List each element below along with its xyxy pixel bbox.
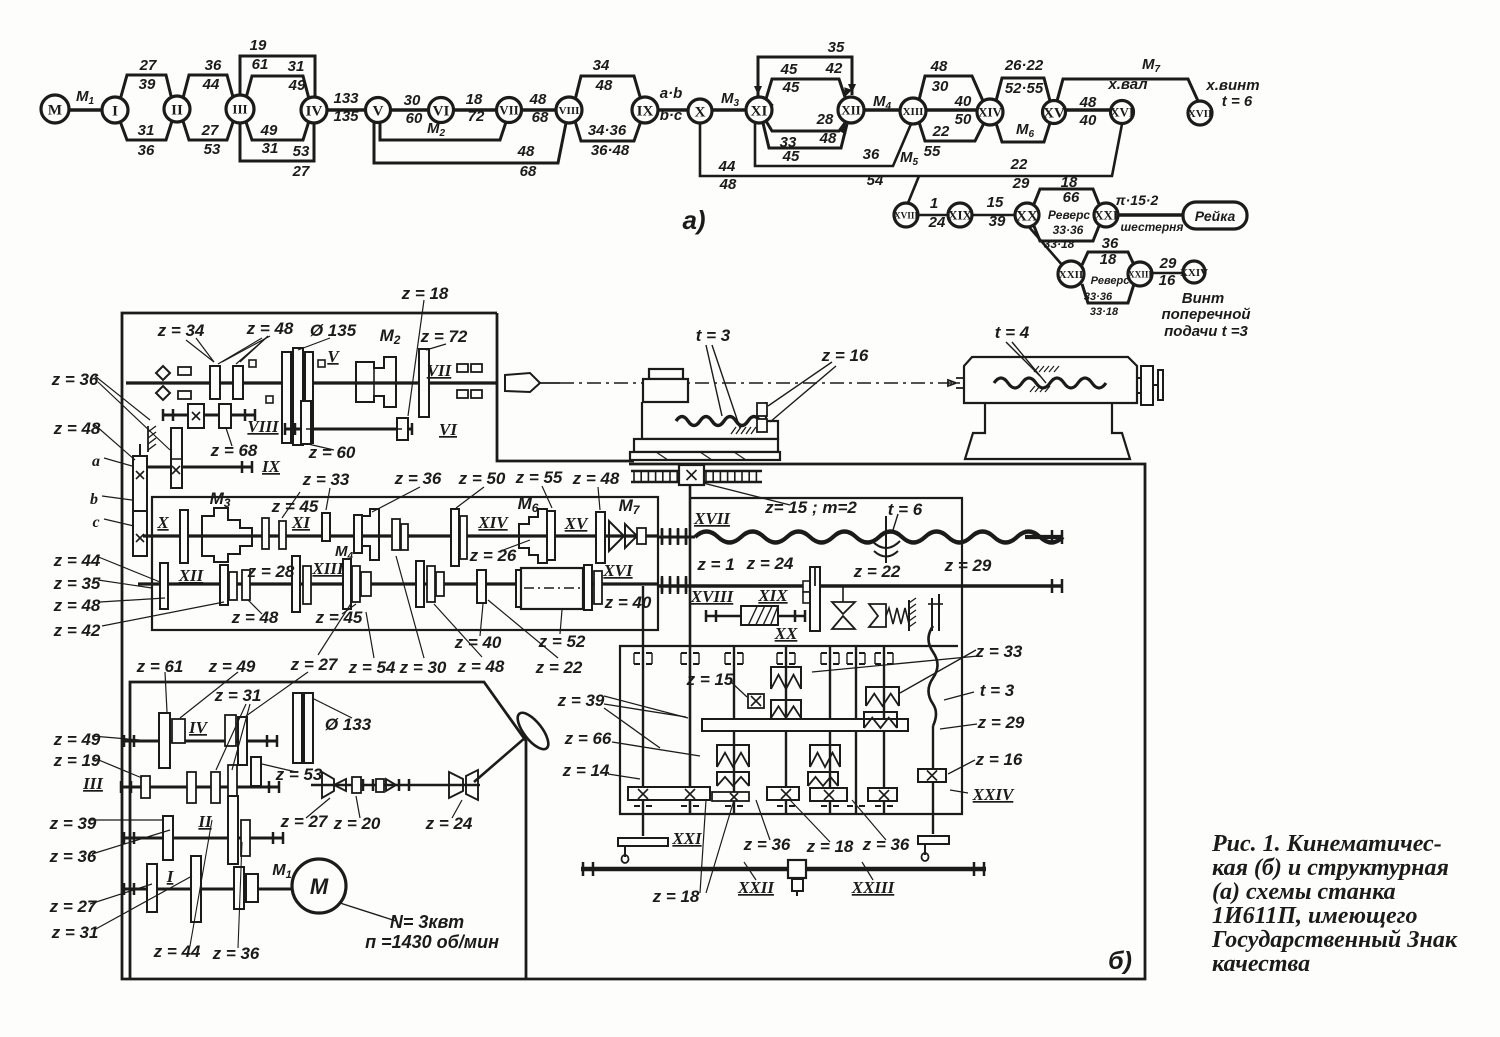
node M xyxy=(41,95,69,123)
gear z=60 xyxy=(301,401,311,444)
svg-text:VII: VII xyxy=(499,103,519,118)
spring wall hatched xyxy=(908,600,910,631)
wall hatching xyxy=(148,426,156,432)
ratchet clutch xyxy=(869,604,886,627)
node XXIII xyxy=(1128,262,1152,286)
svg-text:XVIII: XVIII xyxy=(690,587,735,606)
svg-text:z = 50: z = 50 xyxy=(458,469,506,488)
gear z=44/35 block xyxy=(160,563,168,609)
cross-feed screw wave xyxy=(676,417,760,426)
svg-text:28: 28 xyxy=(816,111,834,128)
svg-text:М1: М1 xyxy=(272,862,291,881)
svg-text:XIV: XIV xyxy=(978,105,1002,120)
motor M xyxy=(292,859,346,913)
svg-text:z = 36: z = 36 xyxy=(394,469,442,488)
svg-text:М: М xyxy=(48,102,62,118)
handwheel xyxy=(512,708,553,754)
svg-text:36: 36 xyxy=(138,142,155,159)
svg-text:z = 68: z = 68 xyxy=(210,441,258,460)
svg-text:66: 66 xyxy=(1063,189,1080,206)
svg-text:z = 22: z = 22 xyxy=(853,562,901,581)
ratio loop III-IV inner bottom 49/31 xyxy=(246,121,309,140)
svg-text:t = 6: t = 6 xyxy=(888,500,923,519)
wire XIII-XIV xyxy=(926,108,977,112)
leader D133 xyxy=(312,698,352,718)
node XIV xyxy=(977,99,1003,125)
svg-text:XVII: XVII xyxy=(693,509,731,528)
svg-text:XII: XII xyxy=(841,103,861,118)
svg-text:XXIV: XXIV xyxy=(1180,267,1208,279)
svg-text:z = 60: z = 60 xyxy=(308,443,356,462)
svg-text:52·55: 52·55 xyxy=(1005,80,1044,97)
sliding key bar xyxy=(702,719,908,731)
node I xyxy=(102,97,128,123)
svg-text:z = 18: z = 18 xyxy=(652,887,700,906)
svg-text:VIII: VIII xyxy=(559,105,580,117)
wire XI to XIII (M5 line) xyxy=(755,122,911,166)
svg-text:53: 53 xyxy=(204,141,221,158)
node VIII xyxy=(556,97,582,123)
bevel pair z=22 xyxy=(832,602,855,614)
node XV xyxy=(1043,101,1066,124)
lower rack shaft xyxy=(581,867,986,872)
svg-text:XXII: XXII xyxy=(737,878,775,897)
node V xyxy=(366,98,391,123)
svg-text:z = 18: z = 18 xyxy=(401,284,449,303)
svg-text:кая (б) и структурная: кая (б) и структурная xyxy=(1212,855,1449,881)
leaders headstock labels xyxy=(186,340,214,362)
gear z=36/z=48 on shaft IX xyxy=(171,428,182,488)
svg-text:X: X xyxy=(156,513,169,532)
svg-text:45: 45 xyxy=(782,79,800,96)
svg-text:XII: XII xyxy=(178,566,205,585)
svg-text:b·c: b·c xyxy=(660,107,683,124)
ratio loop II-III top 36/44 xyxy=(183,75,233,98)
gear z=52 xyxy=(584,565,592,610)
svg-text:33·36: 33·36 xyxy=(1053,223,1084,237)
drive vertical from pinion xyxy=(689,485,692,814)
speed gearbox outline xyxy=(130,682,526,979)
wire XIX-XX xyxy=(972,214,1015,217)
svg-text:16: 16 xyxy=(1159,272,1176,289)
svg-text:IX: IX xyxy=(637,103,654,119)
lathe centre at tailstock xyxy=(956,378,964,388)
gear z=48 (to rack pinion) xyxy=(596,512,605,563)
svg-text:60: 60 xyxy=(406,110,423,127)
svg-text:XIX: XIX xyxy=(757,586,788,605)
vertical shaft top bearing marks xyxy=(634,652,640,654)
svg-text:1: 1 xyxy=(930,195,938,212)
svg-text:XX: XX xyxy=(774,624,798,643)
svg-text:М5: М5 xyxy=(900,149,919,168)
svg-text:М6: М6 xyxy=(1016,121,1035,140)
svg-text:33·18: 33·18 xyxy=(1044,237,1075,251)
svg-text:VII: VII xyxy=(427,361,453,380)
svg-text:Рис. 1. Кинематичес-: Рис. 1. Кинематичес- xyxy=(1211,831,1442,857)
svg-text:III: III xyxy=(82,774,104,793)
svg-text:шестерня: шестерня xyxy=(1121,220,1184,234)
svg-text:Ø 133: Ø 133 xyxy=(325,715,372,734)
apron verticals xyxy=(642,586,644,836)
wire IV-V xyxy=(327,108,366,112)
svg-text:30: 30 xyxy=(404,92,421,109)
svg-text:М7: М7 xyxy=(1142,56,1161,75)
svg-text:z = 19: z = 19 xyxy=(53,751,101,770)
overload clutch M7 xyxy=(609,521,624,551)
couplings XVII from M7 xyxy=(658,536,695,539)
ratio loop III-IV outer top 19/61 xyxy=(240,56,315,97)
long cluster gear xyxy=(228,796,238,864)
svg-text:z = 48: z = 48 xyxy=(53,596,101,615)
leader t=4 tailstock xyxy=(1006,342,1040,376)
shaft X (upper cluster shaft) xyxy=(143,534,658,537)
svg-text:z = 31: z = 31 xyxy=(214,686,262,705)
ratio loop III-IV inner top 31/49 xyxy=(246,76,309,99)
ratio loop XIV-XV bottom M6 xyxy=(996,123,1050,142)
saddle base xyxy=(634,439,778,452)
svg-text:z = 36: z = 36 xyxy=(743,835,791,854)
ratio loop XIII-XIV bottom 22/55 xyxy=(919,122,984,141)
wire VI-VII xyxy=(454,108,497,112)
svg-text:z = 49: z = 49 xyxy=(208,657,256,676)
wire VII-VIII xyxy=(522,108,556,112)
svg-text:40: 40 xyxy=(954,93,972,110)
shaft XII (lower cluster shaft) xyxy=(138,582,658,585)
svg-text:XXIII: XXIII xyxy=(851,878,896,897)
node XI xyxy=(746,97,772,123)
ratio loop VIII-IX bottom xyxy=(575,121,641,141)
svg-text:z = 27: z = 27 xyxy=(290,655,339,674)
main gear cluster box xyxy=(152,497,658,630)
gear z=45b xyxy=(279,521,286,549)
node XIII xyxy=(900,98,926,124)
svg-text:п =1430 об/мин: п =1430 об/мин xyxy=(365,932,499,952)
tailstock body xyxy=(964,357,1137,403)
svg-text:z = 44: z = 44 xyxy=(153,942,201,961)
svg-text:z = 48: z = 48 xyxy=(231,608,279,627)
cluster on XIII xyxy=(343,559,351,609)
node XVI xyxy=(1110,101,1134,124)
node IV xyxy=(301,97,327,123)
shaft I xyxy=(124,888,284,891)
svg-text:45: 45 xyxy=(780,61,798,78)
svg-text:I: I xyxy=(166,867,175,886)
gear z=16 cross feed xyxy=(918,769,946,782)
svg-text:XVI: XVI xyxy=(602,561,634,580)
svg-text:z = 27: z = 27 xyxy=(49,897,98,916)
svg-text:48: 48 xyxy=(930,58,948,75)
svg-text:XVIII: XVIII xyxy=(894,210,918,220)
shaft VIII xyxy=(163,414,255,417)
ratio loop XX-XXI top (Revers) xyxy=(1034,189,1099,204)
svg-text:V: V xyxy=(327,347,340,366)
cross slide body xyxy=(642,402,778,439)
svg-text:68: 68 xyxy=(520,163,537,180)
spindle axis dash-dot xyxy=(560,382,963,384)
svg-text:а): а) xyxy=(682,205,705,235)
shaft IV xyxy=(124,740,278,743)
svg-text:М2: М2 xyxy=(380,326,401,347)
node II xyxy=(164,96,190,122)
svg-text:z = 36: z = 36 xyxy=(51,370,99,389)
svg-text:II: II xyxy=(171,102,183,118)
gear z=54 xyxy=(416,561,424,607)
tailstock handwheel xyxy=(1141,366,1153,405)
svg-text:40: 40 xyxy=(1079,112,1097,129)
svg-text:48: 48 xyxy=(595,77,613,94)
casing outline xyxy=(122,313,1145,979)
svg-text:z = 44: z = 44 xyxy=(53,551,101,570)
pick-off change gears a,b,c xyxy=(133,456,147,511)
svg-text:36: 36 xyxy=(863,146,880,163)
svg-text:М1: М1 xyxy=(76,88,95,107)
svg-text:VIII: VIII xyxy=(247,417,280,436)
wire XII-XIII xyxy=(864,108,900,112)
svg-text:49: 49 xyxy=(288,77,306,94)
svg-text:качества: качества xyxy=(1212,951,1310,977)
svg-text:t = 3: t = 3 xyxy=(696,326,731,345)
svg-text:36: 36 xyxy=(1102,235,1119,252)
rack z=48 / pinion z=15 m=2 xyxy=(631,470,762,472)
carriage toolpost xyxy=(649,369,683,379)
svg-text:54: 54 xyxy=(867,172,884,189)
svg-text:48: 48 xyxy=(529,91,547,108)
node X xyxy=(688,99,712,123)
svg-text:z = 48: z = 48 xyxy=(53,419,101,438)
svg-text:72: 72 xyxy=(468,108,485,125)
feed shaft (XVI extension) xyxy=(658,584,1062,587)
svg-text:z = 61: z = 61 xyxy=(136,657,184,676)
svg-text:(а) схемы станка: (а) схемы станка xyxy=(1212,879,1396,905)
svg-text:х.вал: х.вал xyxy=(1107,76,1148,93)
leader t=6 xyxy=(893,514,898,530)
node XIX xyxy=(948,203,973,227)
node XXI xyxy=(1094,203,1118,227)
svg-text:IV: IV xyxy=(306,103,323,119)
feed drum xyxy=(516,570,523,607)
tailstock screw wave xyxy=(994,378,1106,388)
svg-text:Реверс: Реверс xyxy=(1091,275,1130,287)
cluster M4 gears xyxy=(354,515,362,553)
worm wheels xyxy=(771,667,801,689)
tailstock nut hatching xyxy=(1034,366,1039,372)
svg-text:поперечной: поперечной xyxy=(1161,306,1250,323)
svg-text:III: III xyxy=(232,102,247,117)
svg-text:z = 15: z = 15 xyxy=(686,670,734,689)
gear z=50 xyxy=(451,509,459,566)
svg-text:z = 20: z = 20 xyxy=(333,814,381,833)
svg-text:XXIII: XXIII xyxy=(1128,269,1152,279)
svg-text:55: 55 xyxy=(924,143,941,160)
svg-text:XVI: XVI xyxy=(1110,105,1134,120)
svg-text:45: 45 xyxy=(782,148,800,165)
svg-text:z = 24: z = 24 xyxy=(746,554,794,573)
svg-text:49: 49 xyxy=(260,122,278,139)
svg-text:33·36: 33·36 xyxy=(1084,291,1113,303)
loop XI-XII 33/45 xyxy=(763,123,847,148)
svg-text:26·22: 26·22 xyxy=(1004,57,1044,74)
ratio loop I-II bottom 31/36 xyxy=(120,121,172,140)
svg-text:π·15·2: π·15·2 xyxy=(1116,192,1159,208)
svg-text:48: 48 xyxy=(819,130,837,147)
wire M-I xyxy=(69,108,102,112)
leaders speed box xyxy=(165,672,167,712)
leadscrew XVII wave xyxy=(695,532,1063,543)
svg-text:I: I xyxy=(112,103,118,119)
svg-text:z = 31: z = 31 xyxy=(51,923,99,942)
node VII xyxy=(497,98,522,123)
gear on VI xyxy=(397,418,408,440)
svg-text:z = 1: z = 1 xyxy=(696,555,734,574)
leader z=15;m=2 xyxy=(703,483,790,505)
pinion z=15 in apron xyxy=(748,694,764,708)
gear z=61 xyxy=(159,713,170,768)
gear wheel D135 xyxy=(282,352,291,443)
svg-text:XVII: XVII xyxy=(1188,108,1212,120)
svg-text:XIV: XIV xyxy=(477,513,509,532)
bevel pair at handwheel xyxy=(449,772,463,798)
gear z=48 on spindle xyxy=(233,366,243,399)
leadscrew box xyxy=(620,498,962,814)
svg-text:135: 135 xyxy=(333,108,359,125)
svg-text:z = 55: z = 55 xyxy=(515,468,563,487)
cluster leader lines xyxy=(318,602,352,655)
svg-text:z = 27: z = 27 xyxy=(280,812,329,831)
clutch M3 xyxy=(202,508,252,562)
svg-text:z = 40: z = 40 xyxy=(604,593,652,612)
svg-text:29: 29 xyxy=(1159,255,1177,272)
node Рейка (rack) xyxy=(1183,202,1247,229)
svg-text:a·b: a·b xyxy=(660,85,683,102)
wire IX-X xyxy=(658,108,688,112)
svg-text:II: II xyxy=(197,812,213,831)
ratio loop VIII-IX top 34/48 xyxy=(575,76,641,100)
svg-text:t = 3: t = 3 xyxy=(980,681,1015,700)
svg-text:z = 48: z = 48 xyxy=(572,469,620,488)
gear z=30 xyxy=(477,570,486,603)
shaft II xyxy=(124,837,284,840)
svg-text:61: 61 xyxy=(252,56,269,73)
svg-text:z = 36: z = 36 xyxy=(49,847,97,866)
gear z=72 xyxy=(419,349,429,417)
svg-text:XIX: XIX xyxy=(948,208,972,223)
svg-text:a: a xyxy=(92,453,100,470)
svg-text:М7: М7 xyxy=(619,496,641,517)
gear z=55 xyxy=(547,511,555,560)
svg-text:z = 45: z = 45 xyxy=(315,608,363,627)
centre cone xyxy=(505,373,540,392)
svg-text:27: 27 xyxy=(139,57,157,74)
svg-text:27: 27 xyxy=(292,163,310,180)
svg-text:z = 36: z = 36 xyxy=(212,944,260,963)
svg-text:XV: XV xyxy=(564,514,589,533)
svg-text:z = 40: z = 40 xyxy=(454,633,502,652)
svg-text:X: X xyxy=(695,104,706,120)
svg-text:z = 14: z = 14 xyxy=(562,761,610,780)
ratio loop XX-XXI bottom xyxy=(1034,226,1099,241)
svg-text:N= 3квт: N= 3квт xyxy=(390,912,464,932)
handle XXIV bottom xyxy=(918,836,949,844)
svg-text:XXIV: XXIV xyxy=(972,785,1015,804)
svg-text:z = 39: z = 39 xyxy=(557,691,605,710)
svg-text:18: 18 xyxy=(1100,251,1117,268)
svg-text:Винт: Винт xyxy=(1182,290,1224,307)
svg-text:z = 54: z = 54 xyxy=(348,658,396,677)
ratio loop III-IV outer bottom 53/27 xyxy=(240,123,314,161)
svg-text:XXI: XXI xyxy=(1094,208,1118,223)
svg-text:35: 35 xyxy=(828,39,845,56)
svg-text:b: b xyxy=(90,491,98,508)
svg-text:53: 53 xyxy=(293,143,310,160)
svg-text:44: 44 xyxy=(202,76,220,93)
svg-text:133: 133 xyxy=(333,90,359,107)
svg-text:z= 15 ; m=2: z= 15 ; m=2 xyxy=(764,498,857,517)
svg-text:z = 35: z = 35 xyxy=(53,574,101,593)
svg-text:30: 30 xyxy=(932,78,949,95)
hatching under nut xyxy=(731,427,736,434)
ratio loop XIV-XV top 26*22/52*55 xyxy=(996,78,1050,101)
svg-text:XXII: XXII xyxy=(1059,269,1083,281)
svg-text:48: 48 xyxy=(719,176,737,193)
svg-text:IX: IX xyxy=(261,457,281,476)
svg-text:42: 42 xyxy=(825,60,843,77)
svg-text:XXI: XXI xyxy=(671,829,703,848)
wire XX to XXII xyxy=(1029,227,1063,266)
wire XXIII-XXIV xyxy=(1152,272,1183,275)
svg-text:22: 22 xyxy=(1010,156,1028,173)
flexible shaft to cross feed xyxy=(929,626,938,726)
wire XVIII-XIX xyxy=(918,214,948,217)
wire XXI to rack xyxy=(1118,213,1183,217)
gear on X left xyxy=(180,510,188,563)
gear z=53 xyxy=(251,757,261,786)
svg-text:Реверс: Реверс xyxy=(1048,208,1090,222)
svg-text:XIII: XIII xyxy=(903,106,924,118)
wire junction to XVIII xyxy=(908,176,919,203)
headstock box right edge xyxy=(497,313,634,461)
svg-text:z = 26: z = 26 xyxy=(469,546,517,565)
svg-text:34·36: 34·36 xyxy=(588,122,627,139)
svg-text:XX: XX xyxy=(1016,208,1038,224)
svg-text:1И611П, имеющего: 1И611П, имеющего xyxy=(1212,903,1417,929)
worm z=1 on shaft XVIII xyxy=(706,615,806,618)
gear z=49c xyxy=(172,719,185,743)
svg-text:z = 48: z = 48 xyxy=(457,657,505,676)
svg-text:VI: VI xyxy=(439,420,458,439)
leader t=3 on carriage xyxy=(706,345,722,416)
svg-text:50: 50 xyxy=(955,111,972,128)
disc D133 xyxy=(293,693,302,763)
svg-text:44: 44 xyxy=(718,158,736,175)
VI axis xyxy=(306,428,402,430)
svg-text:z = 24: z = 24 xyxy=(425,814,473,833)
gear on VIII xyxy=(188,404,204,428)
ratio loop II-III bottom 27/53 xyxy=(183,121,233,140)
svg-text:z = 33: z = 33 xyxy=(302,470,350,489)
node IX xyxy=(632,97,658,123)
svg-text:36: 36 xyxy=(205,57,222,74)
svg-text:18: 18 xyxy=(466,91,483,108)
svg-text:Ø 135: Ø 135 xyxy=(310,321,357,340)
svg-text:z = 33: z = 33 xyxy=(975,642,1023,661)
gear z=34 on spindle xyxy=(210,366,220,399)
svg-text:34: 34 xyxy=(593,57,610,74)
svg-text:б): б) xyxy=(1108,947,1132,975)
spring zigzag xyxy=(886,608,909,624)
node XXIV xyxy=(1180,261,1208,283)
svg-text:z = 16: z = 16 xyxy=(821,346,869,365)
svg-text:36·48: 36·48 xyxy=(591,142,630,159)
